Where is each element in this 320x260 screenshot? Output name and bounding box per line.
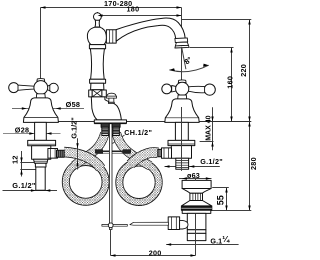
right handle center ball bbox=[176, 82, 189, 95]
arrows 12 bbox=[20, 158, 22, 163]
arrows 280 bbox=[248, 122, 250, 127]
arrows 55 bbox=[225, 188, 227, 193]
drain seal (black) bbox=[181, 206, 211, 210]
svg-text:55: 55 bbox=[216, 195, 226, 205]
left handle left spoke bbox=[18, 85, 34, 90]
pop-up lever rod bbox=[130, 222, 169, 225]
drain centerline over body bbox=[195, 214, 197, 241]
right valve shank tube above flange bbox=[175, 122, 188, 140]
spout collar lower bbox=[90, 79, 106, 83]
right hose from shank to coil bbox=[116, 133, 150, 166]
dimension Ø28 line bbox=[3, 133, 61, 135]
drain tailpiece bbox=[187, 233, 206, 240]
spout neck bbox=[95, 20, 100, 27]
200 ext left bbox=[110, 230, 112, 256]
svg-text:220: 220 bbox=[239, 64, 248, 77]
MAX40 bottom tick bbox=[200, 141, 214, 143]
left valve hose connector bbox=[57, 150, 65, 157]
right handle cap bbox=[178, 80, 186, 83]
arrows 220 bbox=[248, 20, 250, 25]
right handle neck bbox=[178, 95, 187, 99]
right handle left spoke bbox=[172, 86, 177, 93]
left valve nut bbox=[35, 163, 46, 167]
pop-up knob dome bbox=[107, 93, 116, 96]
extension line left handle center bbox=[40, 8, 42, 79]
base plate bbox=[94, 120, 126, 123]
8 deg tilted line bbox=[182, 47, 186, 69]
arrows Ø28 bbox=[29, 132, 34, 134]
G.1 1/4 leader bbox=[166, 244, 238, 246]
CH.1/2 leader bbox=[113, 135, 125, 144]
arrows 170-280 bbox=[41, 6, 46, 8]
pop-up rod bbox=[109, 104, 112, 230]
right shank nut bbox=[112, 123, 120, 127]
right valve hose connector bbox=[158, 149, 162, 156]
arrows ø63 bbox=[182, 177, 187, 179]
faucet body skirt bbox=[91, 97, 121, 120]
left valve tube bbox=[36, 167, 45, 190]
pivot circle bbox=[108, 223, 113, 228]
55-dim / 280 shared ext bottom bbox=[210, 210, 252, 212]
svg-text:160: 160 bbox=[226, 76, 235, 89]
12-dim ext top bbox=[20, 162, 36, 164]
left handle left ball bbox=[9, 83, 19, 93]
right valve hex port bbox=[162, 148, 172, 158]
200 ext right / drain centerline low bbox=[195, 241, 197, 256]
drain lower flange bbox=[182, 210, 211, 213]
G.1/2 left rotated leader over hoses bbox=[77, 138, 79, 169]
svg-text:MAX 40: MAX 40 bbox=[206, 115, 213, 140]
deck line bbox=[23, 121, 251, 123]
svg-text:12: 12 bbox=[11, 156, 20, 164]
drain lever hex nut bbox=[168, 217, 179, 230]
spout ball finial bbox=[94, 13, 102, 21]
G.1/2 right leader line bbox=[165, 166, 220, 168]
drain ribbed cylinder bbox=[190, 193, 203, 200]
spout collar upper bbox=[89, 45, 105, 49]
spout shaft bbox=[90, 49, 104, 80]
55-dim ext top bbox=[212, 187, 229, 189]
drain body bbox=[187, 213, 206, 229]
right hose from coil to valve bbox=[131, 152, 158, 164]
dimension 220/280 vertical line bbox=[249, 20, 251, 211]
svg-text:200: 200 bbox=[149, 248, 162, 257]
8 deg arc bbox=[169, 65, 208, 72]
svg-text:Ø58: Ø58 bbox=[66, 100, 81, 109]
pop-up knob stem bbox=[109, 98, 114, 102]
drain groove bbox=[187, 230, 206, 234]
arrows 8 deg arc bbox=[169, 68, 175, 71]
svg-text:180: 180 bbox=[127, 5, 140, 14]
12-dim ext bottom bbox=[20, 169, 36, 171]
left valve washer bbox=[34, 159, 48, 163]
left hose coil bbox=[62, 159, 109, 206]
svg-text:Ø28: Ø28 bbox=[15, 125, 29, 134]
drain lever cap bbox=[180, 220, 188, 229]
right handle bell bbox=[165, 99, 199, 123]
extension line spout column center bbox=[97, 12, 99, 16]
dimension Ø58 line bbox=[12, 108, 84, 110]
left handle bell bbox=[23, 98, 58, 123]
G.1/2 bottom-left dim line bbox=[3, 190, 58, 192]
left valve shank tube above flange bbox=[35, 122, 47, 140]
spout outlet ring bbox=[175, 38, 188, 43]
pop-up knob brim bbox=[106, 96, 116, 98]
arrows MAX40 bbox=[211, 117, 213, 122]
55-dim vertical bbox=[226, 188, 228, 211]
left hose from valve to coil bbox=[64, 152, 101, 168]
left valve hex port bbox=[48, 149, 58, 159]
left shank thread bbox=[102, 127, 109, 135]
drain skirt bbox=[181, 201, 211, 206]
right handle left ball bbox=[162, 84, 172, 94]
drain transition bbox=[182, 189, 211, 194]
svg-text:CH.1/2": CH.1/2" bbox=[124, 128, 152, 137]
left handle neck bbox=[36, 94, 45, 98]
extension line spout top right bbox=[182, 19, 252, 21]
svg-text:G.1/2": G.1/2" bbox=[200, 157, 223, 166]
arrows 160 bbox=[230, 48, 232, 53]
right hose coil bbox=[116, 159, 162, 205]
spout tube bbox=[116, 18, 185, 41]
arrows G.1/2 bottom-left bbox=[31, 189, 36, 191]
drain cup bbox=[182, 180, 211, 188]
dimension 170-280 line bbox=[41, 7, 182, 9]
spout outlet cup bbox=[175, 42, 188, 46]
pivot crossbar bbox=[102, 224, 127, 226]
spout arm collar bbox=[106, 30, 116, 43]
svg-text:8°: 8° bbox=[183, 55, 194, 66]
dimension MAX40 vertical line bbox=[212, 107, 214, 150]
left handle right spoke bbox=[47, 85, 49, 91]
left hose from shank to coil bbox=[74, 133, 105, 166]
valve cross box right flange bbox=[102, 90, 106, 97]
arrows G.1/2 right bbox=[189, 165, 194, 167]
arrow G.1 1/4 bbox=[166, 243, 171, 245]
centerline over right handle area bbox=[181, 47, 183, 80]
12-dim vertical bbox=[21, 151, 23, 177]
dimension 160 vertical line bbox=[231, 48, 233, 122]
left valve body bbox=[32, 146, 51, 159]
right handle right spoke bbox=[188, 86, 204, 93]
left handle cap bbox=[37, 79, 45, 82]
valve cross box left flange bbox=[89, 90, 93, 97]
left handle center ball bbox=[34, 81, 48, 95]
dimension ø63 line bbox=[179, 178, 212, 180]
dimension 200 line bbox=[111, 255, 196, 257]
arrows G.1/2 left rotated bbox=[76, 143, 78, 148]
right valve body bbox=[171, 146, 191, 159]
re-merge hatch at coil junctions bbox=[62, 159, 109, 206]
spout base neck bbox=[91, 83, 104, 90]
right handle right ball bbox=[204, 84, 215, 95]
mounting bracket bar bbox=[95, 151, 131, 153]
right valve flange bbox=[168, 140, 195, 145]
arrows Ø58 bbox=[22, 107, 27, 109]
svg-text:G.1¼: G.1¼ bbox=[210, 234, 230, 245]
right shank thread bbox=[113, 127, 120, 135]
extension line spout outlet right bbox=[190, 47, 234, 49]
valve cross box bbox=[92, 90, 102, 97]
dimension 180 line bbox=[98, 15, 182, 17]
svg-text:G.1/2": G.1/2" bbox=[70, 117, 79, 139]
left handle right ball bbox=[49, 83, 58, 92]
svg-text:ø63: ø63 bbox=[187, 171, 200, 180]
left shank nut bbox=[101, 123, 109, 127]
svg-text:G.1/2": G.1/2" bbox=[12, 181, 36, 190]
arrows 200 bbox=[111, 254, 116, 256]
left valve flange bbox=[28, 140, 56, 145]
right valve shank bbox=[176, 158, 189, 169]
svg-text:280: 280 bbox=[249, 157, 258, 170]
centerline right (spout outlet / right handle) bbox=[181, 8, 183, 171]
arrows 180 bbox=[98, 14, 103, 16]
spout onion bulge bbox=[87, 27, 106, 44]
